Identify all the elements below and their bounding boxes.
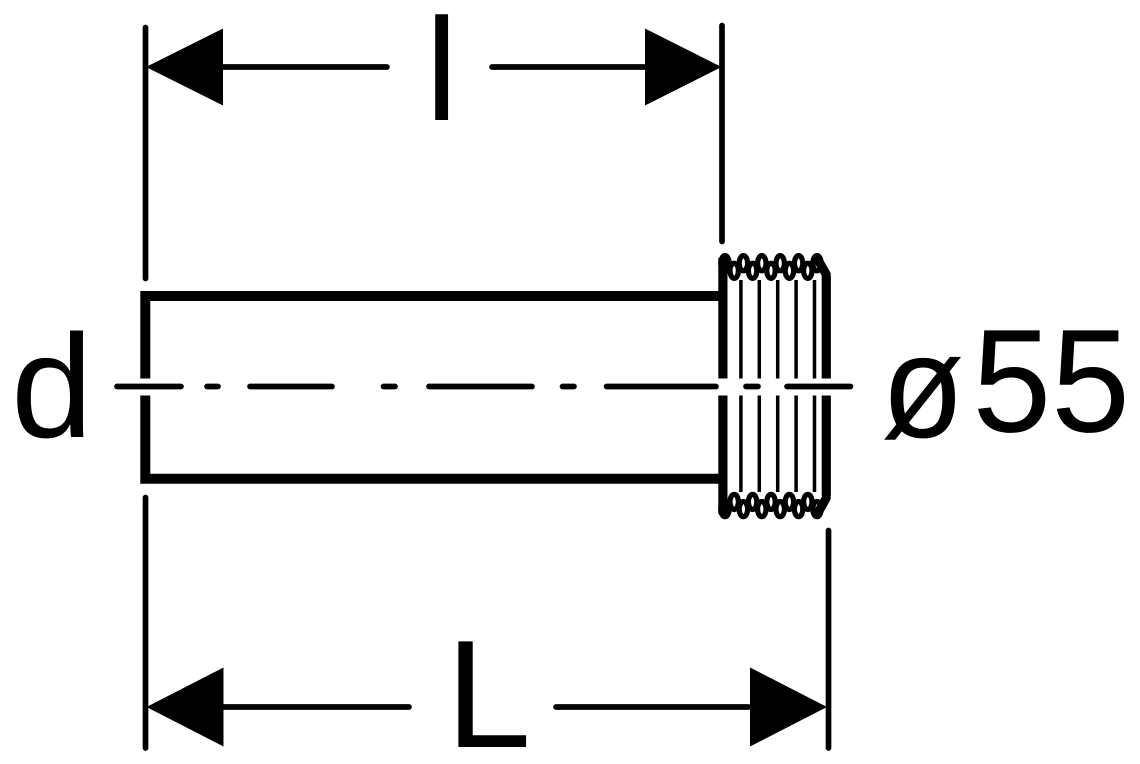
centerline dot 8 [746,384,758,390]
svg-text:l: l [425,0,457,151]
arrowhead l right [645,29,722,106]
arrowhead l left [146,29,223,106]
thread root line 4 [794,280,798,492]
svg-text:d: d [11,305,93,469]
thread root line 3 [776,280,780,492]
collar right edge upper [822,276,831,379]
dimension line l (right segment) [492,64,648,70]
thread root line 5 [813,280,817,492]
collar right edge lower [822,396,831,497]
thread chamfer bottom-right [818,498,827,514]
arrowhead L right [750,668,827,747]
dimension line L (left segment) [223,704,409,710]
tube body upper outline [145,296,723,379]
centerline dash 5 [429,384,532,390]
tube body lower outline [145,396,723,479]
extension line bottom-left [143,498,149,749]
extension line top-right [719,26,725,242]
extension line top-left [143,28,149,279]
thread loops top band [721,256,821,279]
svg-text:L: L [446,608,531,764]
thread root line 2 [758,280,762,492]
centerline dash 9 [787,384,851,390]
collar left edge lower [718,396,727,515]
centerline dash 7 [607,384,717,390]
centerline dash 3 [250,384,332,390]
centerline dot 2 [207,384,218,390]
centerline dot 4 [384,384,396,390]
arrowhead L left [147,668,224,747]
collar left edge upper [718,258,727,379]
thread loops bottom band [721,494,821,516]
dimension line l (left segment) [221,64,387,70]
extension line bottom-right [826,531,832,749]
thread root line 1 [739,280,743,492]
thread chamfer top-right [818,259,827,275]
svg-text:55: 55 [973,300,1131,464]
centerline dot 6 [563,384,575,390]
dimension line L (right segment) [556,704,749,710]
centerline dash 1 [117,384,181,390]
svg-text:ø: ø [881,305,964,469]
